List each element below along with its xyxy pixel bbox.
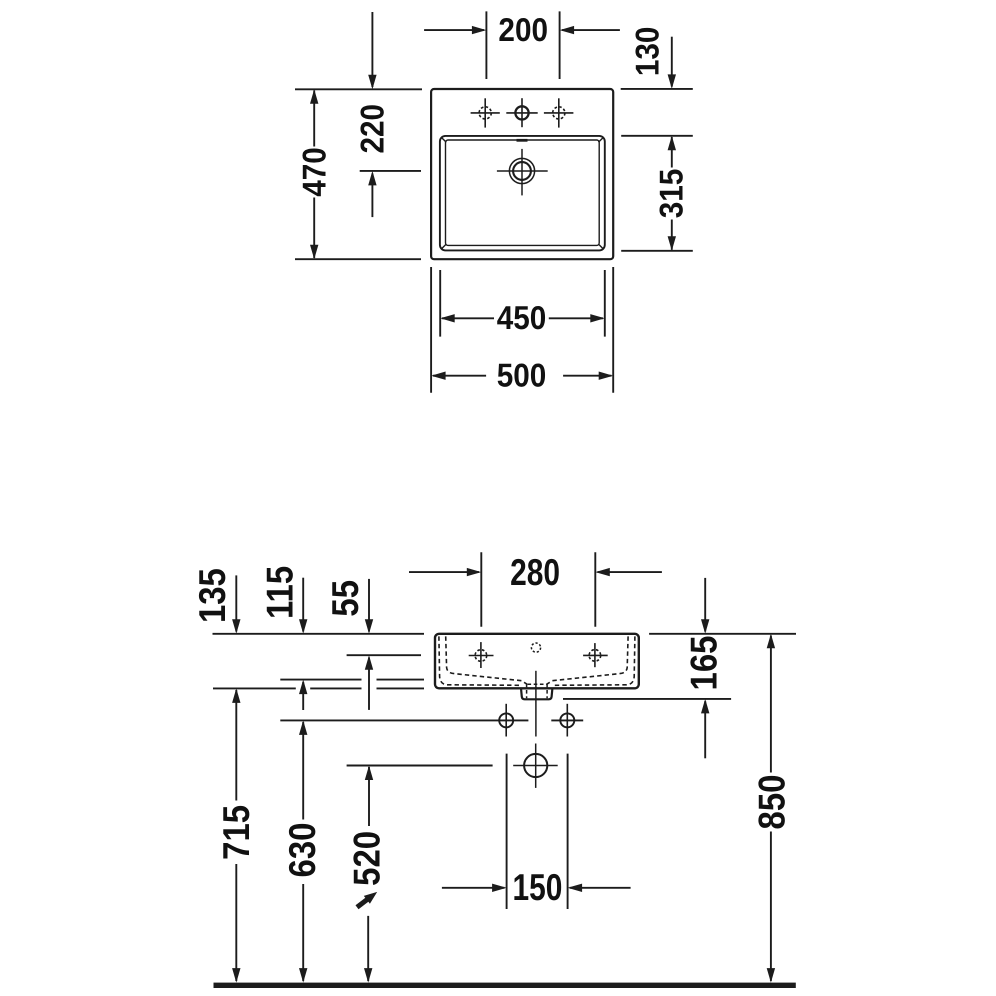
dim 280: label: [510, 551, 560, 593]
front view: drain trap outlet: [521, 688, 552, 699]
top view: drain outer circle: [509, 158, 534, 183]
top view: basin opening inner line: [446, 140, 600, 245]
svg-text:450: 450: [497, 299, 547, 336]
dim 220: upper arrow pointing down at rim top: [371, 12, 373, 87]
front view: basin body outline: [435, 634, 639, 689]
dim 200: label: [498, 11, 548, 48]
level line: fixing holes: [280, 719, 528, 721]
dim 150: right arrow: [570, 887, 631, 889]
dim 150: left arrow: [442, 887, 505, 889]
front view: overflow hole (small dashed circle): [531, 643, 540, 652]
dim 55: label: [324, 580, 366, 617]
dim 200: left arrow: [424, 29, 484, 31]
top view: right tap hole (dashed) with centerlines: [553, 107, 565, 119]
level line: trap bottom extended right: [563, 698, 731, 700]
floor line: [214, 983, 796, 988]
dim 470: dimension line with inside arrows: [313, 91, 315, 147]
dim 850: label: [750, 775, 792, 830]
front view: left fixing hole: [499, 713, 513, 727]
dim 715: label: [215, 805, 257, 860]
dim 500: extension line left: [430, 267, 432, 393]
dim 500: label: [497, 356, 547, 393]
extension line: basin bottom extended right: [621, 250, 693, 252]
dim 135: arrow down to rim top: [235, 575, 237, 631]
top view: overflow slot mark: [517, 139, 528, 142]
dim 220: drain centerline extended left: [360, 170, 421, 172]
extension line: basin top extended right: [621, 135, 693, 137]
svg-text:220: 220: [353, 104, 390, 154]
top view: center tap hole (solid) with centerlines: [515, 106, 528, 119]
svg-text:470: 470: [296, 147, 333, 197]
top view: basin corner tick top-right: [598, 138, 603, 143]
top view: drain inner circle: [513, 162, 531, 180]
extension line: rim bottom edge extended left: [295, 258, 421, 260]
dim 520: label: [346, 831, 388, 886]
front view: right tap hole (dashed) with centerlines: [589, 650, 601, 662]
extension line: rim top edge extended right: [621, 88, 693, 90]
front view: drain pipe dashed walls: [526, 684, 528, 698]
level line: 135 below rim / basin bottom: [213, 687, 296, 689]
front view: inner bowl right wall (dashed): [553, 636, 635, 685]
svg-text:500: 500: [497, 356, 547, 393]
svg-text:315: 315: [652, 169, 689, 219]
front view: right fixing hole: [560, 713, 574, 727]
dim 200: extension line right: [559, 11, 561, 79]
dim 220: label: [353, 104, 390, 154]
dim 450: extension line left: [439, 270, 441, 337]
svg-text:55: 55: [324, 580, 366, 617]
top view: basin corner tick top-left: [442, 138, 447, 143]
dim 450: label: [497, 299, 547, 336]
dim 500: extension line right: [612, 267, 614, 393]
dim 115: arrow down to rim top: [302, 578, 304, 632]
dim 850: dimension line floor to rim: [767, 634, 775, 649]
svg-text:135: 135: [191, 568, 233, 623]
dim 150: label: [512, 866, 562, 908]
level line: rim top extended right: [649, 633, 796, 635]
extension line: rim top edge extended left: [295, 88, 422, 90]
dim 115: label: [259, 566, 301, 619]
dim 150: extension line left: [506, 754, 508, 909]
dim 200: right arrow: [562, 29, 620, 31]
svg-text:200: 200: [498, 11, 548, 48]
dim 165: upper arrow down to rim line: [704, 578, 706, 632]
front view: inner bowl left wall (dashed): [439, 636, 521, 685]
svg-text:715: 715: [215, 805, 257, 860]
dim 150: extension line right: [567, 754, 569, 909]
dim 55: arrow down to rim top: [368, 579, 370, 632]
top view: drain centerline vertical: [521, 149, 523, 196]
svg-text:115: 115: [259, 566, 301, 619]
dim 200: extension line left: [485, 11, 487, 79]
dim 280: right arrow: [598, 571, 662, 573]
top view: left tap hole (dashed) with centerlines: [479, 107, 491, 119]
dim 135: label: [191, 568, 233, 623]
dim 280: extension line right: [594, 552, 596, 627]
top view: washbasin outer rim (500x470): [431, 89, 613, 259]
level line: rim top extended left: [213, 633, 425, 635]
dim 520: oblique arrow: [357, 898, 370, 907]
svg-text:850: 850: [750, 775, 792, 830]
level line: 115 below rim: [280, 679, 361, 681]
svg-text:280: 280: [510, 551, 560, 593]
svg-text:630: 630: [281, 823, 323, 878]
top view: basin opening outer line: [440, 136, 605, 251]
dim 115: lower arrow pointing up: [302, 682, 304, 710]
dim 165: lower arrow pointing up: [704, 701, 706, 758]
dim 630: arrow up to fixing holes line, line to floor: [299, 720, 307, 735]
level line: 55 below rim: [347, 654, 421, 656]
front view: left tap hole (dashed) with centerlines: [475, 650, 487, 662]
dim 450: extension line right: [604, 270, 606, 337]
front view: drain vertical centerline: [535, 671, 537, 737]
front view: drain pipe circle: [524, 754, 547, 777]
dim 280: left arrow: [409, 571, 479, 573]
top view: basin corner tick bottom-right: [598, 244, 603, 249]
dim 470: label: [296, 147, 333, 197]
svg-text:150: 150: [512, 866, 562, 908]
dim 130: label: [628, 27, 665, 77]
dim 715: arrow up to basin bottom, line to floor: [232, 688, 240, 703]
dim 315: label: [652, 169, 689, 219]
dim 165: label: [682, 636, 724, 691]
level line: drain height: [347, 765, 493, 767]
svg-text:165: 165: [682, 636, 724, 691]
top view: basin corner tick bottom-left: [442, 244, 447, 249]
top view: drain centerline horizontal: [497, 170, 548, 172]
dim 500: dimension line with outward arrows: [433, 375, 486, 377]
dim 315: dimension line with inside arrows: [671, 137, 673, 168]
dim 130: arrow down to rim top: [671, 37, 673, 87]
dim 630: label: [281, 823, 323, 878]
svg-text:130: 130: [628, 27, 665, 77]
dim 280: extension line left: [480, 552, 482, 627]
dim 55: lower arrow pointing up: [368, 658, 370, 710]
svg-text:520: 520: [346, 831, 388, 886]
dim 220: lower arrow pointing up: [371, 174, 373, 218]
dim 520: arrow up to drain line, line to floor: [365, 766, 373, 781]
dim 450: dimension line with outward arrows: [442, 317, 494, 319]
